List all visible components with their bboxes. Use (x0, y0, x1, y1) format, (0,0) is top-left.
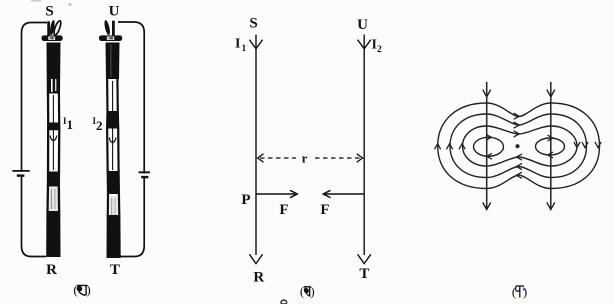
svg-text:(: ( (300, 284, 304, 299)
up arrows at left extremes of contours (435, 144, 466, 150)
label F (left) (279, 202, 288, 218)
wire loop left (from clamp S to bottom of strip) (22, 23, 48, 257)
svg-text:1: 1 (242, 44, 247, 54)
neutral point dot (515, 144, 519, 148)
conductor strip U-T (106, 43, 121, 259)
current arrowheads on wire 2 (547, 90, 555, 210)
arrows on small ellipse 2 (548, 135, 554, 158)
svg-text:P: P (241, 192, 250, 208)
svg-text:1: 1 (67, 117, 74, 132)
label F (right) (320, 202, 329, 218)
svg-text:U: U (109, 3, 120, 19)
field line small ellipse around wire 1 (474, 137, 504, 156)
conductor strip S-R (46, 43, 60, 258)
svg-text:R: R (46, 262, 57, 278)
label S (249, 16, 257, 32)
label I1 (63, 116, 73, 132)
arrowhead at R end (249, 254, 262, 263)
scan speck top left (31, 0, 72, 6)
field line middle contour B (450, 114, 587, 178)
label I2 (93, 116, 103, 133)
current arrowhead I1 (top of S-R) (249, 40, 262, 49)
clamp at U (99, 20, 122, 41)
field line outer contour C (438, 103, 600, 189)
svg-text:2: 2 (96, 118, 103, 133)
force arrow F on wire S-R (257, 190, 298, 197)
label I1 (235, 37, 247, 55)
svg-text:I: I (235, 37, 240, 52)
wire S-R (255, 35, 257, 256)
scan speck blue dot in caption ga (523, 288, 525, 290)
left-pointing arrows at bottom waist (516, 154, 522, 179)
label S (45, 3, 53, 19)
caption (ga) (512, 284, 527, 299)
wire 2 (550, 82, 552, 210)
right-pointing arrows at top waist (514, 113, 520, 137)
label R (46, 262, 57, 278)
down arrows at right extremes of contours (574, 142, 601, 148)
field line small ellipse around wire 2 (536, 138, 565, 155)
current arrowhead I2 (top of U-T) (358, 40, 371, 49)
svg-text:r: r (302, 151, 308, 166)
wire 1 (486, 82, 488, 210)
svg-text:): ) (86, 282, 90, 297)
current arrow I2 inside strip (109, 81, 116, 170)
svg-text:2: 2 (377, 45, 382, 55)
label R (253, 270, 264, 286)
label I2 (372, 38, 383, 56)
svg-text:U: U (357, 17, 368, 33)
label T (359, 266, 369, 282)
field line inner peanut contour A (463, 126, 578, 166)
clamp at S (42, 20, 63, 41)
label U (357, 17, 368, 33)
separation arrow r (dashed) (258, 154, 363, 162)
arrowhead at T end (358, 254, 371, 263)
svg-text:S: S (45, 3, 53, 19)
current arrow I1 inside strip (50, 95, 57, 170)
svg-text:F: F (279, 202, 288, 218)
svg-text:T: T (359, 266, 369, 282)
page artifact below caption (281, 300, 287, 304)
label P (241, 192, 250, 208)
caption (kha) (300, 284, 315, 299)
caption (ka) (73, 282, 90, 297)
svg-text:F: F (320, 202, 329, 218)
label r (302, 151, 308, 166)
svg-text:T: T (110, 262, 120, 278)
svg-text:): ) (310, 284, 314, 299)
wire loop right (from clamp U to bottom of strip) (118, 22, 144, 257)
current arrowheads on wire 1 (483, 90, 491, 210)
svg-text:R: R (253, 270, 264, 286)
svg-text:S: S (249, 16, 257, 32)
wire U-T (363, 35, 365, 256)
force arrow F on wire U-T (323, 190, 364, 197)
label U (109, 3, 120, 19)
label T (110, 262, 120, 278)
battery right (139, 172, 150, 177)
arrows on small ellipse 1 (486, 134, 492, 159)
battery left (12, 171, 29, 176)
